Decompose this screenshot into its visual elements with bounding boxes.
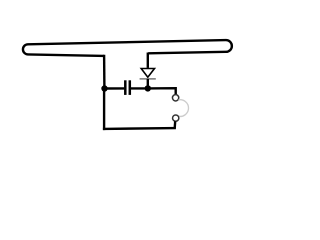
wire (antenna right feed / diode anode lead) [147, 53, 149, 68]
earphone E1 top terminal [172, 95, 178, 101]
capacitor C1 (left plate) [124, 80, 127, 95]
antenna A1 (folded loop element) [23, 40, 232, 56]
wire (bottom rail) [103, 127, 176, 130]
wire (earphone bottom terminal down to bottom rail) [173, 121, 176, 128]
diode D1 cathode lead to J2 [147, 79, 149, 89]
earphone E1 bottom terminal [173, 115, 179, 121]
node J2 (junction dot) [145, 85, 151, 91]
node J1 (junction dot) [101, 85, 107, 91]
earphone E1 cord arc [178, 100, 188, 117]
wire (C1 to junction J2) [131, 87, 148, 89]
wire (J1 down to bottom rail) [103, 89, 105, 131]
capacitor C1 (right plate) [129, 80, 132, 95]
diode D1 (triangle, cathode down) [141, 69, 154, 78]
wire (J1 to capacitor C1) [105, 87, 125, 89]
wire (J2 to earphone top terminal) [148, 88, 176, 94]
diode D1 cathode bar [140, 78, 156, 80]
wire (left feed from antenna down to junction J1) [103, 55, 106, 89]
